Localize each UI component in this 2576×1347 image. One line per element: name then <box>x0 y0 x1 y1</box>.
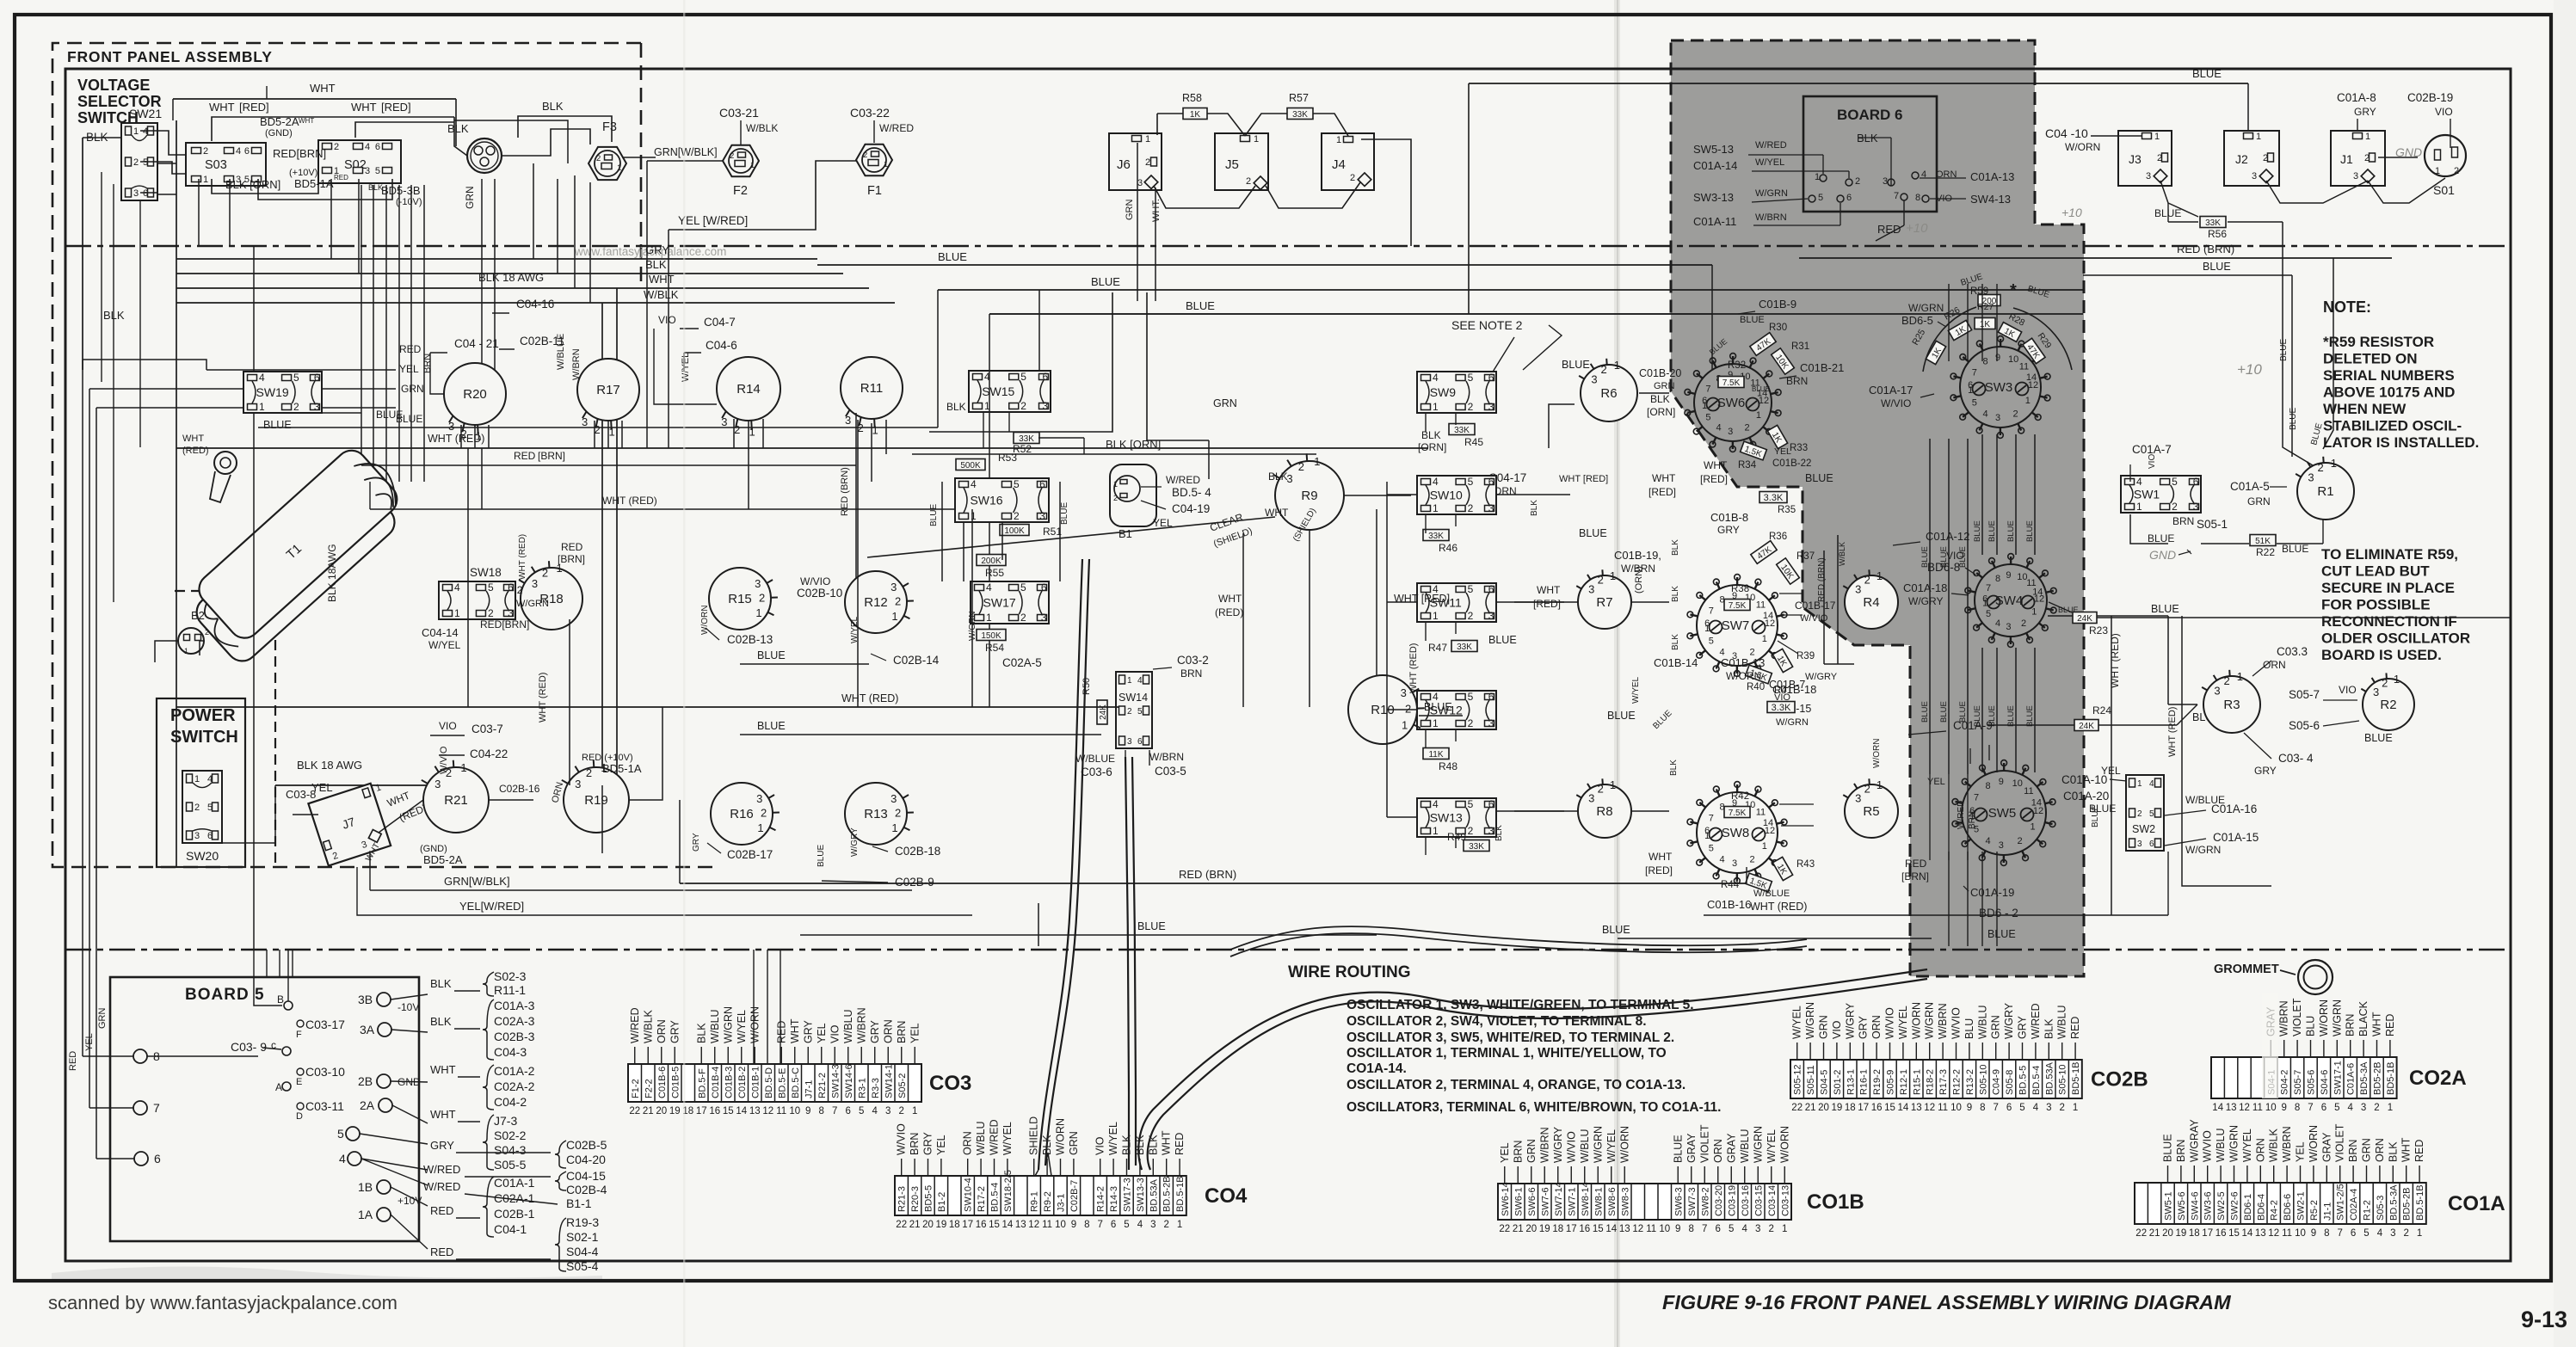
svg-text:RED: RED <box>430 1204 453 1217</box>
gray column bottom stubs <box>1929 774 1931 860</box>
svg-text:W/BLU: W/BLU <box>1976 1005 1988 1039</box>
svg-text:5: 5 <box>2149 809 2154 819</box>
svg-text:20: 20 <box>1818 1103 1829 1113</box>
svg-text:W/BLU: W/BLU <box>842 1009 854 1043</box>
svg-text:C01A-3: C01A-3 <box>494 999 535 1012</box>
svg-text:14: 14 <box>1605 1224 1617 1234</box>
svg-text:BRN: BRN <box>1180 667 1202 680</box>
svg-text:BRN: BRN <box>909 1133 921 1155</box>
svg-text:5: 5 <box>1137 707 1143 717</box>
svg-text:C01A-6: C01A-6 <box>2346 1063 2357 1095</box>
resistor R55 <box>977 555 1006 566</box>
svg-text:10: 10 <box>1055 1220 1066 1230</box>
svg-text:11: 11 <box>1756 807 1766 817</box>
svg-text:C01B-2: C01B-2 <box>737 1067 748 1098</box>
svg-text:1A: 1A <box>358 1208 373 1221</box>
svg-text:3: 3 <box>2361 1103 2366 1113</box>
svg-text:3: 3 <box>2353 171 2358 181</box>
svg-text:8: 8 <box>1995 574 2000 584</box>
board 6 box <box>1803 96 1937 212</box>
svg-text:SW8-14: SW8-14 <box>1581 1182 1591 1216</box>
svg-text:12: 12 <box>2033 806 2043 816</box>
svg-text:GRN[W/BLK]: GRN[W/BLK] <box>654 146 718 158</box>
svg-text:11: 11 <box>1938 1103 1948 1113</box>
pot R6 <box>1581 365 1637 421</box>
svg-text:[ORN]: [ORN] <box>1418 441 1446 453</box>
svg-text:C01A-12: C01A-12 <box>1926 530 1969 543</box>
svg-text:SW16: SW16 <box>970 494 1002 507</box>
svg-text:11: 11 <box>2019 361 2029 372</box>
svg-text:R14-3: R14-3 <box>1109 1186 1119 1212</box>
svg-text:R12-2: R12-2 <box>1952 1069 1963 1095</box>
svg-text:[ORN]: [ORN] <box>1647 406 1675 418</box>
svg-text:BLK: BLK <box>946 401 966 413</box>
svg-text:GRN: GRN <box>401 383 424 395</box>
svg-text:7: 7 <box>1986 583 1991 594</box>
svg-text:C02B-9: C02B-9 <box>895 876 934 889</box>
svg-text:13: 13 <box>1619 1224 1630 1234</box>
pot R10 <box>1348 675 1417 744</box>
transformer mount bracket <box>214 452 237 474</box>
svg-text:YEL[W/RED]: YEL[W/RED] <box>459 900 524 913</box>
svg-text:6: 6 <box>1846 193 1852 203</box>
svg-text:GRN[W/BLK]: GRN[W/BLK] <box>444 875 510 888</box>
resistor R53 <box>956 459 985 471</box>
switch SW21 <box>121 123 157 200</box>
svg-text:A: A <box>275 1081 282 1093</box>
svg-text:3: 3 <box>532 577 538 590</box>
wire top trunk y97 <box>1469 83 2248 84</box>
svg-text:GRN: GRN <box>1990 1015 2002 1039</box>
svg-text:CO1A-14.: CO1A-14. <box>1347 1061 1407 1076</box>
svg-text:R17: R17 <box>596 383 620 397</box>
svg-text:BLK: BLK <box>1530 500 1539 516</box>
svg-text:W/YEL: W/YEL <box>1001 1122 1014 1155</box>
svg-text:[RED]: [RED] <box>239 101 269 114</box>
svg-text:DELETED ON: DELETED ON <box>2323 351 2418 367</box>
svg-text:2: 2 <box>2137 809 2142 819</box>
svg-text:18: 18 <box>2189 1228 2200 1239</box>
svg-text:GRN: GRN <box>97 1008 108 1030</box>
svg-text:BLUE: BLUE <box>1920 546 1930 568</box>
svg-text:22: 22 <box>2135 1228 2147 1239</box>
svg-text:BD6 - 2: BD6 - 2 <box>1979 907 2018 920</box>
resistor R44 <box>1745 873 1772 892</box>
svg-text:7: 7 <box>2337 1228 2342 1239</box>
svg-text:BLK: BLK <box>2387 1141 2399 1162</box>
svg-text:-10V: -10V <box>397 1001 419 1013</box>
svg-text:R53: R53 <box>998 452 1017 464</box>
svg-text:W/BRN: W/BRN <box>571 348 582 380</box>
wires mid-left <box>474 370 476 427</box>
svg-text:BD6-5: BD6-5 <box>1901 314 1933 327</box>
wire red brn drop to R1 <box>2323 258 2333 449</box>
svg-text:2: 2 <box>1145 157 1150 168</box>
svg-text:[BRN]: [BRN] <box>558 553 585 565</box>
svg-text:RED: RED <box>775 1021 787 1043</box>
svg-text:BD5-1A: BD5-1A <box>294 177 334 190</box>
svg-text:VOLTAGE: VOLTAGE <box>77 77 150 94</box>
svg-text:S05-4: S05-4 <box>566 1259 599 1273</box>
svg-text:5: 5 <box>1709 637 1714 647</box>
svg-text:C01A-2: C01A-2 <box>494 1064 535 1078</box>
svg-text:C02A-2: C02A-2 <box>494 1079 535 1093</box>
svg-text:GRN: GRN <box>464 186 476 209</box>
svg-text:16: 16 <box>976 1220 987 1230</box>
svg-text:VIOLET: VIOLET <box>2334 1123 2346 1162</box>
svg-text:F1: F1 <box>867 184 882 198</box>
svg-text:RED: RED <box>430 1246 453 1258</box>
svg-text:WHT (RED): WHT (RED) <box>602 495 657 507</box>
rotary SW7 <box>1697 585 1778 666</box>
svg-text:7: 7 <box>832 1106 837 1116</box>
svg-text:BLUE: BLUE <box>1607 710 1636 722</box>
wire R1 drop <box>2283 370 2313 465</box>
svg-text:SW8-3: SW8-3 <box>1620 1187 1630 1216</box>
svg-text:W/ORN: W/ORN <box>1872 739 1882 768</box>
svg-text:3: 3 <box>448 420 454 433</box>
wires under R11 <box>857 420 859 707</box>
svg-text:scanned by www.fantasyjackpala: scanned by www.fantasyjackpalance.com <box>48 1292 397 1313</box>
svg-text:W/BLK: W/BLK <box>2268 1128 2280 1162</box>
svg-text:BLUE: BLUE <box>1920 701 1930 723</box>
svg-text:GRN: GRN <box>2361 1138 2373 1162</box>
svg-text:SW14-1: SW14-1 <box>884 1064 894 1098</box>
svg-text:C03-11: C03-11 <box>305 1099 344 1113</box>
svg-text:10: 10 <box>2265 1103 2277 1113</box>
wires R6 R7 R8 stubs <box>1549 404 1575 448</box>
svg-text:BLK: BLK <box>542 100 564 113</box>
svg-text:14: 14 <box>2212 1103 2223 1113</box>
svg-text:SW6-3: SW6-3 <box>1673 1187 1684 1216</box>
svg-text:5: 5 <box>488 581 494 594</box>
svg-text:4: 4 <box>2347 1103 2353 1113</box>
svg-text:1: 1 <box>2331 457 2337 470</box>
svg-text:3: 3 <box>2308 471 2314 484</box>
svg-text:RED[BRN]: RED[BRN] <box>480 618 529 630</box>
svg-text:3: 3 <box>721 415 727 428</box>
svg-text:1: 1 <box>460 761 466 774</box>
svg-text:GROMMET: GROMMET <box>2214 963 2279 976</box>
svg-text:R19-2: R19-2 <box>1872 1069 1883 1095</box>
svg-text:WHT: WHT <box>182 434 204 444</box>
svg-text:BD5-5: BD5-5 <box>924 1185 934 1212</box>
svg-text:C01A-20: C01A-20 <box>2063 790 2109 803</box>
svg-text:W/GRN: W/GRN <box>2228 1125 2240 1162</box>
resistor R45 <box>1449 424 1475 435</box>
svg-text:SW5-6: SW5-6 <box>2177 1191 2187 1221</box>
battery B2 <box>178 628 204 654</box>
svg-text:W/ORN: W/ORN <box>2318 999 2330 1036</box>
svg-text:BLUE: BLUE <box>2364 732 2393 744</box>
svg-text:STABILIZED OSCIL-: STABILIZED OSCIL- <box>2323 418 2462 434</box>
pot R17 <box>577 359 639 421</box>
svg-text:W/BLUE: W/BLUE <box>556 334 566 370</box>
svg-text:C03-6: C03-6 <box>1081 766 1112 778</box>
svg-text:1: 1 <box>2388 1103 2393 1113</box>
svg-text:W/BLK: W/BLK <box>746 122 778 134</box>
svg-text:WHT: WHT <box>649 273 675 286</box>
svg-text:2: 2 <box>2403 1228 2408 1239</box>
svg-text:RED: RED <box>399 343 422 355</box>
pot R12 <box>845 571 907 633</box>
svg-text:3A: 3A <box>360 1023 375 1036</box>
svg-text:BRN: BRN <box>896 1021 908 1043</box>
svg-text:RED (BRN): RED (BRN) <box>1179 868 1236 881</box>
svg-text:SW18: SW18 <box>470 566 502 579</box>
svg-text:4: 4 <box>1433 798 1439 810</box>
svg-text:BLUE: BLUE <box>2282 543 2308 555</box>
svg-text:W/BLUE: W/BLUE <box>1753 889 1790 899</box>
svg-text:1: 1 <box>2073 1103 2078 1113</box>
wire f3 to s02 path <box>454 120 568 163</box>
svg-text:BLK: BLK <box>1671 634 1680 650</box>
svg-text:CO1A: CO1A <box>2448 1192 2505 1215</box>
svg-text:R31: R31 <box>1791 341 1809 352</box>
svg-text:SW8: SW8 <box>1722 826 1750 840</box>
connector J4 <box>1322 133 1374 190</box>
resistor R37 <box>1776 558 1799 585</box>
svg-text:5: 5 <box>1124 1220 1129 1230</box>
pot R1 <box>2297 463 2354 520</box>
svg-text:33K: 33K <box>1428 532 1444 541</box>
resistor R56 <box>2200 217 2226 228</box>
svg-text:1: 1 <box>1433 502 1439 514</box>
svg-text:SECURE IN PLACE: SECURE IN PLACE <box>2321 580 2455 596</box>
pot R4 <box>1845 575 1898 629</box>
svg-text:BD6-4: BD6-4 <box>2256 1194 2266 1221</box>
svg-text:W/VIO: W/VIO <box>1950 1007 1963 1039</box>
svg-text:S01: S01 <box>2433 183 2455 197</box>
svg-text:BLUE: BLUE <box>1939 701 1949 723</box>
svg-text:WHT (RED): WHT (RED) <box>538 673 548 723</box>
svg-text:2: 2 <box>1020 400 1026 412</box>
svg-text:1: 1 <box>1127 676 1132 686</box>
svg-text:33K: 33K <box>2205 218 2221 228</box>
svg-text:5: 5 <box>1972 398 1977 409</box>
svg-text:14: 14 <box>1898 1103 1909 1113</box>
svg-text:R20: R20 <box>463 387 487 402</box>
wires board5 left <box>147 1055 258 1057</box>
svg-text:13: 13 <box>749 1106 761 1116</box>
svg-text:22: 22 <box>629 1106 640 1116</box>
svg-text:2B: 2B <box>358 1074 373 1088</box>
svg-text:S05-5: S05-5 <box>494 1158 527 1172</box>
svg-text:R21-3: R21-3 <box>897 1186 908 1212</box>
wire BLUE box lower middle <box>1038 903 1039 946</box>
svg-text:1: 1 <box>1815 172 1820 182</box>
svg-text:BD.53A: BD.53A <box>2044 1061 2055 1095</box>
wire red brn right column <box>1746 867 1747 883</box>
resistor R52 <box>1014 433 1039 444</box>
svg-text:R30: R30 <box>1769 323 1787 333</box>
svg-text:2: 2 <box>586 766 592 779</box>
battery B1 <box>1110 464 1156 526</box>
svg-text:5: 5 <box>1020 581 1026 594</box>
wire top-left drops to bundle <box>533 163 534 259</box>
svg-text:3: 3 <box>891 792 897 805</box>
svg-text:YEL: YEL <box>1499 1142 1511 1163</box>
svg-text:W/ORN: W/ORN <box>2065 141 2100 153</box>
svg-text:1: 1 <box>2365 132 2370 142</box>
svg-text:SW13: SW13 <box>1430 811 1463 825</box>
connector strip CO1B <box>1498 1184 1791 1220</box>
svg-text:12: 12 <box>2028 380 2038 391</box>
svg-text:GRN: GRN <box>1068 1131 1080 1155</box>
svg-text:W/BLUE: W/BLUE <box>1075 753 1115 765</box>
svg-text:W/GRY: W/GRY <box>850 827 860 857</box>
svg-text:C02B-5: C02B-5 <box>566 1138 607 1152</box>
svg-text:W/ORN: W/ORN <box>1910 1002 1922 1039</box>
svg-text:GRN: GRN <box>1654 381 1675 391</box>
svg-text:SW7-1: SW7-1 <box>1567 1187 1577 1216</box>
svg-text:C01A-9: C01A-9 <box>1953 719 1993 732</box>
svg-text:6: 6 <box>2149 840 2154 849</box>
svg-text:3: 3 <box>1588 583 1594 596</box>
svg-text:15: 15 <box>2228 1228 2240 1239</box>
pot R18 <box>521 568 582 630</box>
svg-text:ORN: ORN <box>1870 1015 1883 1039</box>
svg-text:3: 3 <box>2137 840 2142 849</box>
svg-text:BD.5-3A: BD.5-3A <box>2388 1184 2399 1221</box>
svg-text:7: 7 <box>1972 368 1977 378</box>
svg-text:*R59 RESISTOR: *R59 RESISTOR <box>2323 334 2434 350</box>
svg-text:12: 12 <box>1765 826 1775 836</box>
svg-text:4: 4 <box>1433 372 1439 384</box>
pot R16 <box>711 783 773 845</box>
svg-text:WHT.: WHT. <box>1151 199 1162 222</box>
svg-text:BOARD 5: BOARD 5 <box>185 986 265 1004</box>
svg-text:1: 1 <box>912 1106 917 1116</box>
svg-text:4: 4 <box>339 1152 346 1166</box>
board 6 region dashed outline <box>1671 40 2084 976</box>
fuse F3 <box>589 147 626 180</box>
svg-text:R43: R43 <box>1796 859 1815 870</box>
svg-text:6: 6 <box>2006 1103 2012 1113</box>
svg-text:1: 1 <box>2025 396 2031 406</box>
svg-text:500K: 500K <box>960 461 981 471</box>
svg-text:WHT: WHT <box>1161 1130 1173 1155</box>
svg-text:5: 5 <box>1818 193 1823 203</box>
svg-text:3: 3 <box>1883 176 1888 187</box>
svg-text:C01B-13: C01B-13 <box>1721 656 1765 669</box>
svg-text:4: 4 <box>1995 618 2000 629</box>
svg-text:16: 16 <box>709 1106 720 1116</box>
svg-text:2: 2 <box>2018 836 2023 846</box>
svg-text:W/YEL: W/YEL <box>428 639 461 651</box>
svg-text:ORN: ORN <box>656 1019 668 1043</box>
svg-text:C03-13: C03-13 <box>1780 1185 1790 1216</box>
svg-text:5: 5 <box>2019 1103 2024 1113</box>
svg-text:GRY: GRY <box>645 243 669 256</box>
svg-text:4: 4 <box>236 146 241 157</box>
svg-text:W/ORN: W/ORN <box>749 1006 761 1043</box>
svg-text:2: 2 <box>2224 674 2230 687</box>
switch SW9 <box>1417 372 1496 413</box>
svg-text:S05-6: S05-6 <box>2289 719 2320 732</box>
svg-text:S05-9: S05-9 <box>1886 1070 1896 1095</box>
wire WHT top trunk <box>173 98 456 100</box>
svg-text:SW14: SW14 <box>1119 692 1148 704</box>
svg-text:W/YEL: W/YEL <box>2241 1129 2253 1162</box>
svg-text:1: 1 <box>1113 480 1118 489</box>
svg-text:2: 2 <box>2172 501 2178 513</box>
svg-text:CO1B: CO1B <box>1807 1190 1864 1214</box>
svg-text:3: 3 <box>1999 840 2004 851</box>
svg-text:7.5K: 7.5K <box>1729 601 1747 611</box>
svg-text:W/GRY: W/GRY <box>1552 1126 1564 1163</box>
svg-text:C02B-1: C02B-1 <box>494 1207 535 1221</box>
svg-text:GRN: GRN <box>1818 1015 1830 1039</box>
svg-text:6: 6 <box>1137 737 1143 747</box>
svg-text:2: 2 <box>2263 153 2268 163</box>
wire R9 vertical down <box>1309 530 1310 707</box>
arc over SW3 resistors <box>1923 307 1976 372</box>
svg-text:C03-21: C03-21 <box>719 106 759 120</box>
svg-text:2: 2 <box>542 566 548 579</box>
svg-text:R27: R27 <box>1977 302 1994 312</box>
svg-text:SW3: SW3 <box>1985 380 2013 395</box>
svg-text:SW15: SW15 <box>982 384 1014 398</box>
svg-text:VIO: VIO <box>2148 454 2157 469</box>
svg-text:SW6: SW6 <box>1717 396 1746 410</box>
svg-text:ORN: ORN <box>2254 1138 2266 1162</box>
svg-text:W/ORN: W/ORN <box>2308 1125 2320 1162</box>
svg-text:2: 2 <box>1745 423 1750 434</box>
fuse F1 <box>856 145 892 175</box>
svg-text:12: 12 <box>2268 1228 2279 1239</box>
svg-text:SHIELD: SHIELD <box>1028 1116 1040 1155</box>
svg-text:R37: R37 <box>1796 551 1815 562</box>
svg-text:2: 2 <box>2157 153 2162 163</box>
svg-text:8: 8 <box>1980 1103 1985 1113</box>
wire bus corner bends right of SW15 <box>929 292 1112 432</box>
svg-text:3: 3 <box>575 778 581 790</box>
switch SW16 <box>955 478 1049 522</box>
svg-text:BLK 18 AWG: BLK 18 AWG <box>478 271 544 284</box>
wires center <box>176 706 1119 708</box>
svg-text:4: 4 <box>207 774 213 784</box>
svg-text:W/YEL: W/YEL <box>1107 1122 1119 1155</box>
svg-text:GND: GND <box>2149 548 2176 562</box>
svg-text:7.5K: 7.5K <box>1722 378 1741 388</box>
svg-text:4: 4 <box>365 142 370 152</box>
svg-text:6: 6 <box>375 142 380 152</box>
switch SW11 <box>1417 583 1496 622</box>
board 6 pins <box>1820 175 1827 181</box>
svg-text:9: 9 <box>2311 1228 2316 1239</box>
pot R11 <box>841 357 903 419</box>
svg-text:1: 1 <box>1254 134 1259 145</box>
svg-text:C02B-13: C02B-13 <box>727 633 773 646</box>
svg-text:BD.5-4: BD.5-4 <box>2031 1066 2042 1095</box>
svg-text:C03-20: C03-20 <box>1714 1185 1724 1216</box>
svg-text:C04-3: C04-3 <box>494 1045 527 1059</box>
svg-text:RED: RED <box>1905 858 1927 870</box>
svg-text:17: 17 <box>2202 1228 2213 1239</box>
svg-text:4: 4 <box>2377 1228 2383 1239</box>
svg-text:4: 4 <box>1716 423 1722 434</box>
svg-text:2: 2 <box>863 151 867 160</box>
svg-text:3: 3 <box>2252 171 2257 181</box>
svg-text:WHT (RED): WHT (RED) <box>518 534 527 580</box>
svg-text:VIO: VIO <box>658 314 676 326</box>
resistor R46 <box>1423 530 1449 541</box>
svg-text:5: 5 <box>1468 476 1474 488</box>
resistor R59 <box>1978 295 2000 306</box>
svg-text:1: 1 <box>184 647 188 655</box>
svg-text:*: * <box>2010 281 2017 300</box>
